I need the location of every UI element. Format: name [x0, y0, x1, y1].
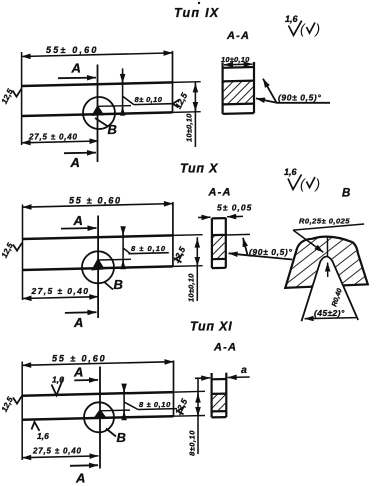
notch apex extension line row2 [98, 258, 131, 261]
svg-text:10±0,10: 10±0,10 [185, 113, 194, 142]
section plane line A row2 [97, 216, 99, 319]
svg-text:55 ± 0,60: 55 ± 0,60 [52, 354, 107, 364]
roughness 1,6 bottom left row3 [32, 422, 50, 441]
right edge / extension line [172, 51, 174, 113]
section A-A row3 : box [212, 373, 227, 418]
svg-text:55 ± 0,60: 55 ± 0,60 [69, 196, 122, 206]
notch (filled) row2 [92, 259, 104, 270]
notch (filled) row1 [92, 106, 103, 116]
notch of detail B (white V) [302, 257, 359, 322]
section plane line A row3 [99, 367, 101, 469]
svg-text:А-А: А-А [208, 187, 232, 199]
dimension 27,5±0,40 row2 [23, 297, 99, 299]
svg-text:1,6: 1,6 [285, 14, 299, 24]
R0,40 arrow detail B [327, 263, 329, 278]
notch apex extension line row3 [100, 409, 130, 412]
svg-text:8± 0,10: 8± 0,10 [135, 95, 163, 104]
svg-text:10±0,10: 10±0,10 [187, 273, 196, 302]
bottom edge extension right row3 [174, 415, 206, 418]
svg-text:В: В [117, 430, 126, 445]
svg-text:А-А: А-А [213, 342, 237, 354]
svg-text:А-А: А-А [226, 30, 250, 42]
roughness 12,5 left row3 [0, 395, 22, 413]
dimension 27,5±0,40 row3 [22, 456, 98, 458]
left edge / extension row3 [21, 362, 23, 461]
svg-text:8±0,10: 8±0,10 [188, 430, 197, 456]
bar outline Тип X [23, 235, 173, 270]
roughness 12,5 right row1 [173, 91, 190, 111]
dimension 8±0,10 row2 [123, 228, 169, 269]
angle callout (90±0,5)° row1 [256, 79, 330, 103]
roughness 12,5 left row2 [0, 241, 22, 259]
svg-text:55± 0,60: 55± 0,60 [46, 45, 99, 55]
notch apex extension line row1 [98, 105, 131, 108]
svg-text:27,5 ± 0,40: 27,5 ± 0,40 [32, 447, 82, 456]
bar outline Тип XI [22, 392, 173, 420]
left edge / extension line [21, 52, 23, 145]
dimension 10±0,10 right row1 [194, 82, 196, 147]
svg-text:А: А [73, 213, 83, 228]
dimension 27,5±0,40 row1 [22, 141, 99, 143]
svg-text:(90± 0,5)°: (90± 0,5)° [249, 247, 292, 257]
svg-text:Тип X: Тип X [180, 162, 218, 176]
detail circle row2 [82, 251, 114, 283]
dimension 8±0,10 row3 [124, 384, 177, 418]
section A-A row1 : box [223, 57, 254, 114]
detail circle row3 [84, 402, 114, 432]
dimension a section row3 [195, 377, 250, 378]
right edge / extension row3 [173, 361, 175, 417]
svg-text:В: В [342, 188, 350, 200]
section A-A row2 : box [212, 218, 226, 268]
leader and label В row2 [104, 282, 113, 290]
section hatch row1 [224, 81, 253, 104]
dimension 55±0,60 row3 [22, 362, 173, 366]
svg-text:(45±2)°: (45±2)° [314, 308, 345, 318]
notch (filled) row3 [94, 410, 106, 419]
svg-text:А: А [73, 365, 83, 380]
svg-text:А: А [71, 61, 81, 76]
svg-text:27,5 ± 0,40: 27,5 ± 0,40 [28, 133, 78, 142]
detail B : dome shape [285, 237, 368, 288]
corner extension line row2 [226, 233, 250, 236]
svg-text:R0,25± 0,025: R0,25± 0,025 [299, 217, 350, 226]
detail circle row1 [83, 97, 115, 129]
leader R0,25±0,025 detail B [293, 224, 364, 252]
svg-text:8 ± 0,10: 8 ± 0,10 [139, 400, 171, 409]
angle callout (90±0,5)° row2 [229, 238, 293, 260]
svg-text:10±0,10: 10±0,10 [221, 55, 250, 64]
dimension 10±0,10 section row1 [224, 63, 253, 66]
svg-text:1,6: 1,6 [284, 167, 298, 177]
svg-text:А: А [75, 471, 85, 486]
dimension 5±0,05 section row2 [198, 216, 243, 217]
dimension (45±2)° detail B [305, 318, 356, 319]
top edge extension right row3 [174, 390, 206, 393]
svg-text:В: В [114, 277, 123, 292]
bar outline Тип IX [22, 82, 173, 116]
dimension 55±0,60 row2 [23, 204, 173, 208]
left edge / extension row2 [22, 205, 24, 301]
svg-text:Тип IX: Тип IX [174, 6, 220, 20]
top edge extension right row2 [173, 234, 203, 237]
svg-text:8 ± 0,10: 8 ± 0,10 [131, 244, 166, 253]
bottom edge extension right [173, 111, 201, 114]
dimension 55±0,60 row1 [22, 53, 173, 57]
roughness 12,5 right row3 [173, 397, 190, 417]
roughness 12,5 right row2 [171, 245, 188, 265]
section plane line A row1 [97, 65, 99, 163]
center line of notch detail B [327, 236, 329, 257]
leader and label В row1 [95, 118, 108, 127]
svg-text:А: А [73, 315, 83, 330]
svg-text:Тип XI: Тип XI [190, 320, 233, 334]
section hatch row2 [213, 235, 225, 258]
svg-text:1,6: 1,6 [37, 431, 49, 441]
roughness 12,5 left row1 [0, 87, 21, 105]
roughness symbol 1,6 (√) row2 [284, 167, 320, 192]
svg-text:27,5 ± 0,40: 27,5 ± 0,40 [31, 286, 90, 296]
dimension 8±0,10 row1 [123, 68, 172, 115]
svg-text:5± 0,05: 5± 0,05 [217, 203, 252, 213]
roughness 1,6 on top edge row3 [52, 375, 65, 396]
right edge / extension row2 [172, 202, 174, 266]
roughness symbol 1,6 (√) top right [285, 14, 320, 37]
top edge extension right [173, 81, 201, 84]
dot artifact [198, 2, 200, 4]
section hatch row3 [213, 394, 226, 411]
dimension 10±0,10 right row2 [196, 237, 198, 301]
dimension 8±0,10 right row3 [197, 378, 199, 454]
leader and label В row3 [106, 429, 116, 437]
svg-text:А: А [70, 155, 80, 170]
bottom edge extension right row2 [173, 265, 203, 268]
svg-text:В: В [108, 122, 117, 137]
svg-text:a: a [241, 364, 247, 376]
svg-text:(90± 0,5)°: (90± 0,5)° [278, 93, 321, 103]
